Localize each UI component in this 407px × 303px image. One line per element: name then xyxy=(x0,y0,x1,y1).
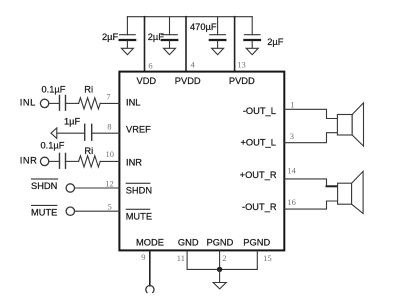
svg-text:PGND: PGND xyxy=(243,237,270,247)
wire INR to C7 xyxy=(49,160,60,162)
svg-text:Ri: Ri xyxy=(84,146,93,156)
capacitor C5 0.1uF xyxy=(60,95,66,110)
svg-text:2: 2 xyxy=(222,253,226,263)
capacitor C1 2uF xyxy=(120,17,136,49)
svg-text:INL: INL xyxy=(20,98,36,108)
svg-text:+OUT_R: +OUT_R xyxy=(240,170,277,180)
capacitor C6 1uF xyxy=(85,124,92,140)
wire thick jog to LS2 xyxy=(327,185,338,187)
wire pin 1 -OUT_L xyxy=(284,109,337,118)
speaker LS1 left channel xyxy=(337,103,363,146)
svg-text:SHDN: SHDN xyxy=(31,181,57,191)
svg-text:SHDN: SHDN xyxy=(126,185,152,195)
resistor R2 Ri xyxy=(79,156,101,167)
svg-text:14: 14 xyxy=(287,166,296,176)
svg-text:MUTE: MUTE xyxy=(31,208,57,218)
svg-text:MUTE: MUTE xyxy=(126,212,152,222)
capacitor C3 470uF xyxy=(210,17,226,49)
node SHDN terminal xyxy=(66,184,74,192)
wire to ground xyxy=(219,269,221,282)
capacitor C2 2uF xyxy=(162,17,178,49)
ground (C3) xyxy=(212,48,224,54)
wire C5 to R1 xyxy=(66,102,79,104)
svg-text:-OUT_L: -OUT_L xyxy=(243,106,276,116)
wire PGND pin 2 xyxy=(219,251,221,270)
speaker LS2 right channel xyxy=(338,171,364,213)
svg-text:16: 16 xyxy=(287,197,296,207)
svg-text:Ri: Ri xyxy=(84,84,93,94)
svg-text:1: 1 xyxy=(290,99,294,109)
node VREF bypass arrow xyxy=(51,128,57,138)
capacitor C4 2uF xyxy=(244,17,260,49)
node MODE terminal arc xyxy=(146,286,154,293)
svg-text:1µF: 1µF xyxy=(64,116,81,126)
svg-text:PVDD: PVDD xyxy=(229,76,255,86)
wire GND pin 11 xyxy=(186,251,188,270)
wire top supply bus xyxy=(127,16,252,18)
svg-text:0.1µF: 0.1µF xyxy=(42,84,66,94)
svg-text:2µF: 2µF xyxy=(267,37,284,47)
svg-text:PVDD: PVDD xyxy=(175,76,201,86)
node INR input terminal xyxy=(40,157,48,165)
wire MUTE to pin 5 xyxy=(75,210,120,212)
svg-text:9: 9 xyxy=(141,252,145,262)
svg-text:MODE: MODE xyxy=(136,237,164,247)
svg-text:INL: INL xyxy=(126,98,140,108)
svg-text:+OUT_L: +OUT_L xyxy=(240,138,275,148)
resistor R1 Ri xyxy=(79,98,101,109)
wire R2 to pin 10 xyxy=(100,160,119,162)
svg-text:7: 7 xyxy=(106,92,110,102)
svg-text:8: 8 xyxy=(107,121,111,131)
svg-text:GND: GND xyxy=(178,237,199,247)
node INL input terminal xyxy=(40,99,48,107)
wire R1 to pin 7 xyxy=(100,102,119,104)
wire PVDD pin 4 xyxy=(185,17,187,71)
capacitor C7 0.1uF xyxy=(60,153,66,168)
svg-text:4: 4 xyxy=(191,59,196,69)
svg-text:-OUT_R: -OUT_R xyxy=(242,202,277,212)
wire ground bus xyxy=(187,268,257,270)
svg-text:5: 5 xyxy=(108,202,112,212)
ground (main) xyxy=(213,283,226,289)
ground (C4) xyxy=(246,48,258,54)
svg-text:6: 6 xyxy=(148,60,152,70)
svg-text:2µF: 2µF xyxy=(102,32,119,42)
wire PGND pin 15 xyxy=(256,251,258,270)
wire pin 14 +OUT_R xyxy=(284,179,326,186)
node MUTE terminal xyxy=(66,207,74,215)
wire arrow to C6 xyxy=(57,132,85,134)
wire C6 to pin 8 xyxy=(92,132,120,134)
svg-text:VDD: VDD xyxy=(137,76,157,86)
svg-text:470µF: 470µF xyxy=(190,22,217,32)
svg-text:INR: INR xyxy=(20,156,38,166)
svg-text:15: 15 xyxy=(263,253,272,263)
svg-text:3: 3 xyxy=(290,131,294,141)
wire pin 3 +OUT_L xyxy=(284,133,337,143)
wire C7 to R2 xyxy=(66,160,79,162)
svg-text:13: 13 xyxy=(237,59,246,69)
wire INL to C5 xyxy=(49,102,60,104)
op-amp U1 chip body xyxy=(119,72,284,251)
wire MODE pin 9 xyxy=(149,251,151,286)
wire VDD pin 6 xyxy=(144,17,146,71)
svg-text:PGND: PGND xyxy=(207,237,234,247)
svg-text:2µF: 2µF xyxy=(148,32,165,42)
svg-text:11: 11 xyxy=(177,253,185,263)
svg-text:VREF: VREF xyxy=(126,124,151,134)
svg-text:12: 12 xyxy=(105,178,114,188)
wire PVDD pin 13 xyxy=(234,17,236,71)
ground (C1) xyxy=(121,48,133,54)
svg-text:0.1µF: 0.1µF xyxy=(41,141,65,151)
node junction dot xyxy=(217,267,222,272)
svg-text:INR: INR xyxy=(126,157,142,167)
wire pin 16 -OUT_R xyxy=(284,201,337,209)
ground (C2) xyxy=(164,48,176,54)
wire SHDN to pin 12 xyxy=(75,187,120,189)
svg-text:10: 10 xyxy=(106,149,115,159)
